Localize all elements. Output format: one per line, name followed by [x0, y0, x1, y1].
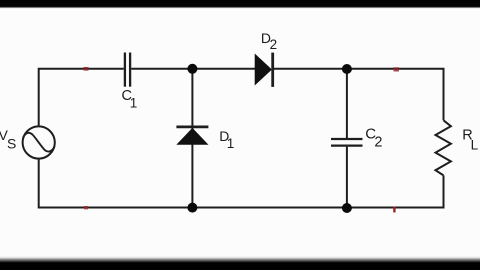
capacitor C2 top plate: [331, 138, 363, 140]
junction node dot bottom C2: [342, 203, 352, 213]
diode D1 cathode bar: [176, 126, 208, 129]
red artifact speck on bottom wire left: [84, 206, 88, 209]
diode D2 cathode bar: [271, 53, 274, 87]
svg-text:2: 2: [374, 135, 382, 151]
wire C2 branch lower: [346, 147, 348, 208]
diode D2 triangle: [255, 55, 271, 85]
junction node dot bottom D1: [187, 203, 197, 213]
red artifact tick on bottom wire right: [393, 207, 395, 213]
wire top-left segment: [39, 69, 124, 127]
letterbox bottom bar: [0, 256, 480, 270]
wire top-middle segment: [131, 68, 256, 70]
junction node dot top-left (C1/D1): [187, 64, 197, 74]
voltage source VS circle: [23, 126, 55, 158]
junction node dot top-right (D2/C2): [342, 64, 352, 74]
svg-text:1: 1: [130, 95, 138, 110]
resistor RL zigzag: [436, 120, 451, 175]
wire D1 branch vertical: [191, 69, 193, 208]
svg-text:2: 2: [270, 37, 278, 52]
capacitor C2 bottom plate: [331, 144, 363, 146]
svg-text:L: L: [471, 138, 479, 153]
red artifact speck on top wire right: [394, 67, 400, 71]
capacitor C1 left plate: [124, 53, 126, 87]
diode D1 triangle: [178, 129, 208, 145]
svg-text:S: S: [7, 136, 16, 152]
voltage source VS sine wave: [23, 133, 55, 152]
red artifact speck on top wire left: [84, 67, 89, 71]
svg-text:1: 1: [227, 136, 235, 151]
wire top-right segment: [274, 69, 444, 121]
wire C2 branch upper: [346, 69, 348, 138]
capacitor C1 right plate: [129, 53, 131, 87]
wire bottom rail: [39, 159, 444, 208]
letterbox top bar: [0, 0, 480, 9]
